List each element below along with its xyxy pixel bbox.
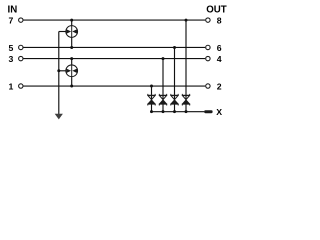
wire diode V3 drop from line 6 [174,47,176,111]
junction F2 bottom on line 1-2 [70,85,73,88]
wire equipotential bus to X [152,111,205,113]
terminal 2 circle [206,84,210,88]
svg-text:6: 6 [217,43,222,53]
terminal 8 circle [206,18,210,22]
junction F1 top on line 7-8 [70,19,73,22]
ground arrow [55,114,63,120]
suppressor diode V1 [148,94,155,106]
junction F2 top on line 3-4 [70,57,73,60]
junction V4 on bus [185,110,188,113]
wire F2 center electrode stub [59,70,67,72]
svg-text:4: 4 [217,54,222,64]
junction V2 on bus [162,110,165,113]
terminal 5 circle [19,45,23,49]
junction F2 stub on ground drop [57,69,60,72]
svg-text:1: 1 [9,81,14,91]
wire diode V2 drop from line 4 [162,59,164,112]
suppressor diode V2 [159,94,166,106]
wire line 3-4 rail [23,58,205,60]
wire F2 vertical line3/4 to line1/2 [71,59,73,86]
junction V3 on line 5-6 [173,46,176,49]
gas discharge arrester F1 [66,26,78,38]
terminal 1 circle [19,84,23,88]
suppressor diode V3 [171,94,178,106]
svg-text:IN: IN [8,4,18,15]
terminal 7 circle [19,18,23,22]
wire line 7-8 top rail [23,19,205,21]
junction V2 on line 3-4 [162,57,165,60]
wire diode V4 drop from line 8 [185,20,187,112]
suppressor diode V4 [182,94,189,106]
svg-text:OUT: OUT [206,4,227,15]
svg-text:2: 2 [217,81,222,91]
svg-text:X: X [216,107,222,117]
wire diode V1 drop from line 2 [151,86,153,112]
terminal 6 circle [206,45,210,49]
gas discharge arrester F2 [66,65,78,77]
terminal 4 circle [206,56,210,60]
svg-text:7: 7 [9,16,14,26]
svg-text:3: 3 [9,54,14,64]
junction V3 on bus [173,110,176,113]
wire line 1-2 rail [23,85,205,87]
wire line 5-6 rail [23,46,205,48]
junction V4 on line 7-8 [185,19,188,22]
wire ground drop [58,32,60,115]
junction V1 on bus [150,110,153,113]
terminal X bar [204,110,212,113]
junction V1 on line 1-2 [150,85,153,88]
terminal 3 circle [19,56,23,60]
wire F1 center electrode stub [59,31,67,33]
svg-text:8: 8 [217,16,222,26]
junction F1 bottom on line 5-6 [70,46,73,49]
wire F1 vertical line7/8 to line5/6 [71,20,73,47]
svg-text:5: 5 [9,43,14,53]
